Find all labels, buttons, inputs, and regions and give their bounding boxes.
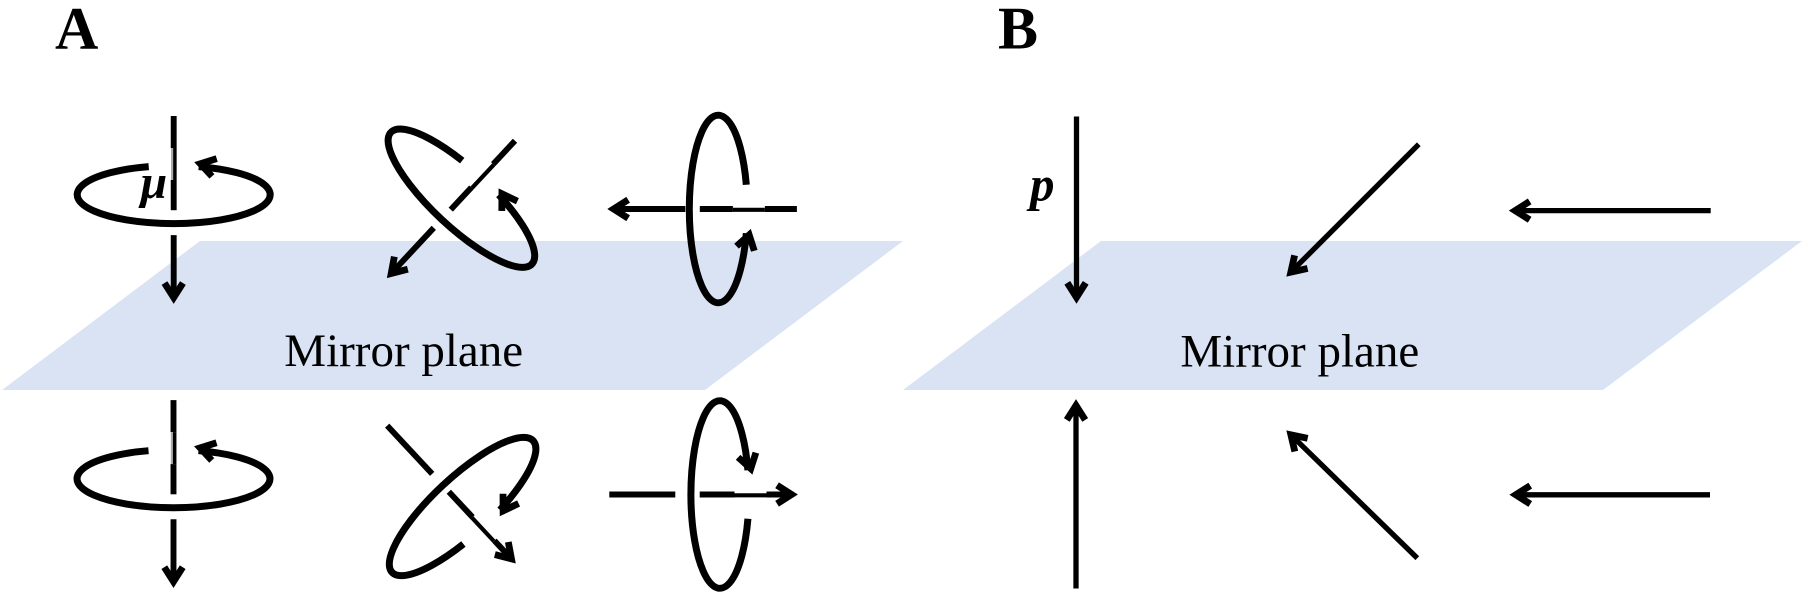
mirrored moment loop (bottom-left) (77, 443, 270, 508)
magnetic moment mu arrow (top-left), shaft with arrowhead (165, 116, 183, 299)
mirrored in-plane moment loop (bottom-right) (691, 401, 756, 589)
mirrored tilted moment loop (bottom-middle) (372, 419, 557, 595)
svg-text:μ: μ (138, 156, 168, 209)
mirror plane parallelogram B (903, 241, 1802, 390)
dipole p arrow (top-left, pointing down) (1074, 117, 1079, 297)
tilted magnetic moment arrow (top-middle) (384, 134, 522, 280)
in-plane magnetic moment arrow (top-right) (614, 200, 797, 218)
mirrored dipole arrow (bottom-left, pointing up) (1073, 406, 1078, 588)
mirror plane parallelogram A (2, 241, 903, 390)
mirrored tilted dipole arrow (bottom-middle, pointing up-left) (1291, 435, 1417, 558)
svg-text:p: p (1026, 157, 1055, 212)
svg-text:Mirror plane: Mirror plane (1180, 325, 1419, 377)
svg-text:B: B (998, 0, 1038, 61)
mirrored tilted moment arrow (bottom-middle) (380, 419, 518, 565)
in-plane dipole arrow (top-right, pointing left) (1516, 208, 1711, 213)
mirrored in-plane moment arrow (bottom-right) (609, 485, 792, 503)
svg-text:A: A (55, 0, 98, 61)
magnetic moment mu circulation loop (top-left) (77, 159, 270, 224)
mirrored moment arrow (bottom-left) (164, 400, 182, 583)
svg-text:Mirror plane: Mirror plane (284, 325, 523, 377)
mirrored in-plane dipole arrow (bottom-right, pointing left) (1517, 492, 1710, 497)
tilted dipole arrow (top-middle, pointing down-left) (1291, 144, 1418, 271)
tilted magnetic moment loop (top-middle) (371, 106, 556, 285)
in-plane magnetic moment loop (top-right) (689, 115, 754, 303)
